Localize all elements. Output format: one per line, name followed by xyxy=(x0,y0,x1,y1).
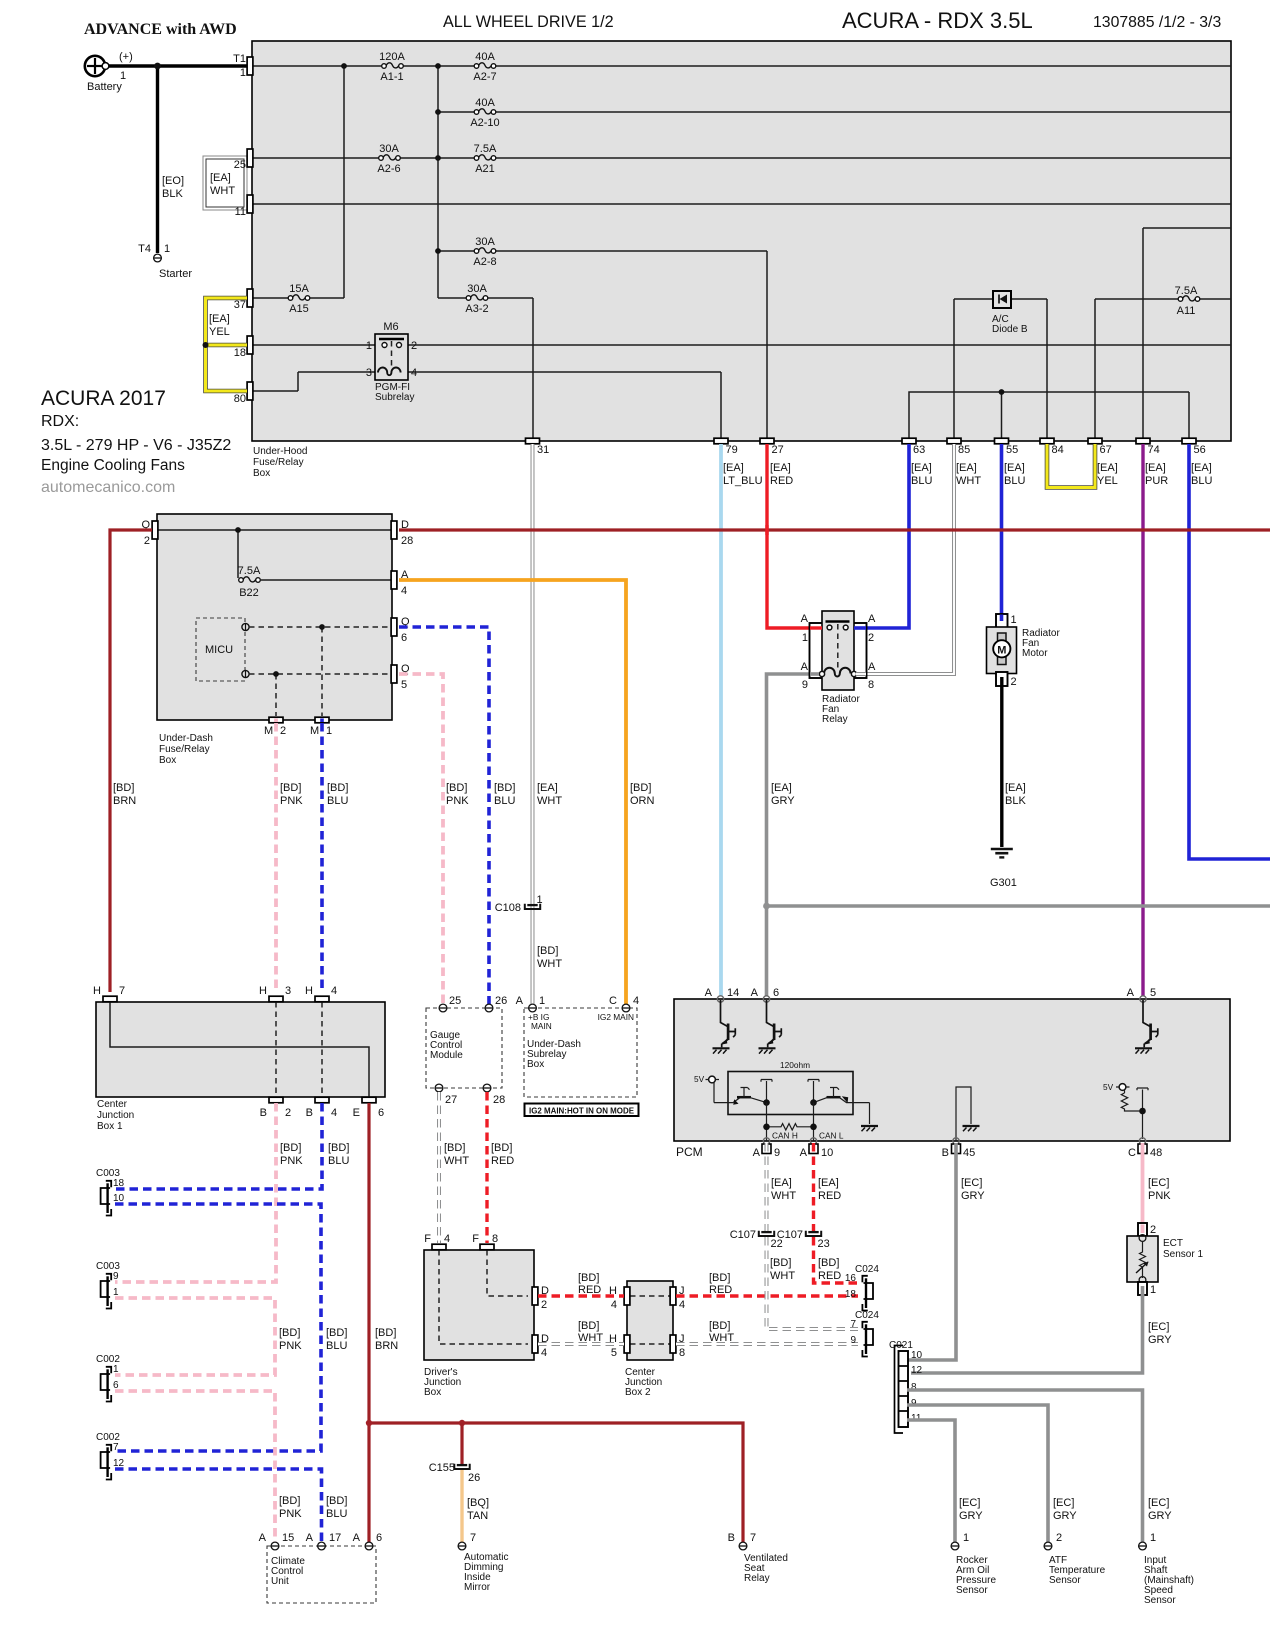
svg-text:3: 3 xyxy=(285,985,291,997)
ECT pin1 connector xyxy=(1138,1282,1147,1295)
svg-text:PNK: PNK xyxy=(280,795,303,807)
pin 27 xyxy=(435,1084,443,1092)
svg-text:[BD]: [BD] xyxy=(327,782,348,794)
svg-text:2: 2 xyxy=(1150,1224,1156,1236)
pin 74 xyxy=(1136,438,1150,444)
wire [EC] GRY ECT pin1 to C021/12 xyxy=(911,1295,1143,1373)
svg-text:BLK: BLK xyxy=(1005,795,1026,807)
pin F/4 xyxy=(432,1244,446,1250)
svg-text:5: 5 xyxy=(401,679,407,691)
svg-text:6: 6 xyxy=(376,1532,382,1544)
svg-text:1: 1 xyxy=(802,632,808,644)
svg-text:[EC]: [EC] xyxy=(959,1497,980,1509)
under-dash fuse/relay box body xyxy=(157,514,392,720)
wire [BD] PNK Q5 to gauge 25 xyxy=(399,674,443,1004)
vertical bus x438 xyxy=(437,66,439,298)
svg-text:BLU: BLU xyxy=(326,1508,347,1520)
svg-text:M: M xyxy=(310,725,319,737)
connector C003 upper xyxy=(101,1181,112,1216)
pin M/1 xyxy=(315,717,329,723)
svg-text:25: 25 xyxy=(234,159,246,171)
svg-text:Motor: Motor xyxy=(1022,648,1048,659)
pin 28 xyxy=(483,1084,491,1092)
motor pin1 connector xyxy=(996,614,1008,628)
wire to fuse B22 xyxy=(238,530,392,580)
svg-text:T4: T4 xyxy=(138,243,151,255)
svg-text:BLU: BLU xyxy=(326,1340,347,1352)
svg-text:[BD]: [BD] xyxy=(537,945,558,957)
pin H/4 xyxy=(315,996,329,1002)
svg-text:2: 2 xyxy=(280,725,286,737)
svg-text:[EA]: [EA] xyxy=(818,1177,839,1189)
svg-text:15A: 15A xyxy=(289,283,309,295)
transistor A6 xyxy=(759,1000,782,1054)
svg-text:BLU: BLU xyxy=(327,795,348,807)
svg-text:1: 1 xyxy=(1150,1284,1156,1296)
svg-text:ACURA 2017: ACURA 2017 xyxy=(41,387,166,410)
svg-text:B: B xyxy=(728,1532,735,1544)
pin 63 xyxy=(902,438,916,444)
svg-text:A: A xyxy=(868,661,876,673)
pin C/4 xyxy=(622,1004,630,1012)
svg-text:C021: C021 xyxy=(889,1340,913,1351)
svg-text:RED: RED xyxy=(491,1155,514,1167)
svg-text:BRN: BRN xyxy=(375,1340,398,1352)
svg-text:7: 7 xyxy=(470,1532,476,1544)
svg-text:[BD]: [BD] xyxy=(578,1320,599,1332)
motor pin2 connector xyxy=(996,672,1008,686)
svg-text:RED: RED xyxy=(818,1190,841,1202)
svg-text:F: F xyxy=(472,1233,479,1245)
svg-text:A: A xyxy=(705,987,713,999)
ECT pullup circuit xyxy=(1103,1082,1148,1139)
svg-text:3: 3 xyxy=(366,367,372,379)
svg-text:A15: A15 xyxy=(289,303,309,315)
svg-text:1: 1 xyxy=(240,67,246,79)
wire row pin11 y204 xyxy=(252,203,1231,205)
svg-text:18: 18 xyxy=(113,1178,125,1189)
pin A/6 xyxy=(365,1542,373,1550)
connector C107 left xyxy=(759,1231,774,1236)
svg-text:[EA]: [EA] xyxy=(537,782,558,794)
svg-text:28: 28 xyxy=(493,1094,505,1106)
pin 26 xyxy=(485,1004,493,1012)
svg-text:[BD]: [BD] xyxy=(818,1257,839,1269)
svg-text:[BD]: [BD] xyxy=(578,1272,599,1284)
svg-text:B: B xyxy=(306,1107,313,1119)
MICU box xyxy=(196,618,245,681)
svg-text:T1: T1 xyxy=(233,53,246,65)
pin A/14 xyxy=(717,996,723,1002)
pin A/5 xyxy=(1140,996,1146,1002)
svg-text:Box: Box xyxy=(424,1387,441,1398)
svg-text:15: 15 xyxy=(282,1532,294,1544)
svg-text:1: 1 xyxy=(326,725,332,737)
svg-text:Mirror: Mirror xyxy=(464,1582,491,1593)
svg-text:BLU: BLU xyxy=(1004,475,1025,487)
svg-text:16: 16 xyxy=(845,1273,857,1284)
fuse 7.5A B22 xyxy=(239,577,261,582)
yellow jumper pin84 to pin67 xyxy=(1047,444,1095,488)
wire [EC] GRY C021/8 to input shaft sensor xyxy=(907,1390,1143,1542)
connector C155 xyxy=(454,1464,469,1469)
svg-text:PNK: PNK xyxy=(279,1340,302,1352)
svg-text:[EA]: [EA] xyxy=(956,462,977,474)
svg-text:B: B xyxy=(942,1147,949,1159)
svg-text:Center: Center xyxy=(97,1099,128,1110)
svg-text:7.5A: 7.5A xyxy=(1175,285,1198,297)
svg-text:[BD]: [BD] xyxy=(326,1495,347,1507)
svg-text:4: 4 xyxy=(633,995,639,1007)
svg-text:C107: C107 xyxy=(730,1229,756,1241)
fuse 40A A2-10 xyxy=(474,109,496,114)
svg-text:A: A xyxy=(306,1532,314,1544)
svg-text:2: 2 xyxy=(411,340,417,352)
wire [BD] WHT gauge 27 to DJB F4 xyxy=(437,1092,441,1243)
svg-text:7: 7 xyxy=(850,1319,856,1330)
motor M circle xyxy=(993,640,1010,657)
svg-text:A: A xyxy=(751,987,759,999)
svg-text:PCM: PCM xyxy=(676,1145,703,1159)
wire maroon branch to C155 xyxy=(460,1423,463,1464)
svg-text:[EC]: [EC] xyxy=(1148,1321,1169,1333)
svg-text:2: 2 xyxy=(1011,676,1017,688)
svg-text:BLU: BLU xyxy=(328,1155,349,1167)
svg-text:14: 14 xyxy=(727,987,739,999)
pin M/2 xyxy=(269,717,283,723)
coil xyxy=(824,668,851,677)
svg-text:84: 84 xyxy=(1052,444,1064,456)
dashed wire H4 to J4 xyxy=(630,1295,670,1297)
pin A/15 xyxy=(271,1542,279,1550)
svg-text:Sensor: Sensor xyxy=(1049,1575,1081,1586)
wire M6 pin4 to pin79 xyxy=(403,372,721,438)
svg-text:9: 9 xyxy=(113,1271,119,1282)
svg-text:YEL: YEL xyxy=(1097,475,1118,487)
wire H7 to E6 internal xyxy=(110,1002,369,1097)
svg-text:[EC]: [EC] xyxy=(1148,1497,1169,1509)
pin A/1 xyxy=(529,1004,537,1012)
PCM body xyxy=(674,999,1230,1141)
svg-text:[BD]: [BD] xyxy=(494,782,515,794)
svg-text:H: H xyxy=(259,985,267,997)
svg-text:Box: Box xyxy=(159,755,176,766)
svg-text:[EA]: [EA] xyxy=(1145,462,1166,474)
svg-text:8: 8 xyxy=(679,1347,685,1359)
connector C107 right xyxy=(806,1231,821,1236)
svg-text:18: 18 xyxy=(234,347,246,359)
svg-text:7.5A: 7.5A xyxy=(238,565,261,577)
wire stubs into motor pins xyxy=(1000,615,1004,622)
svg-text:[BD]: [BD] xyxy=(279,1327,300,1339)
wire row pin37 y298 xyxy=(252,66,533,438)
svg-text:TAN: TAN xyxy=(467,1510,488,1522)
wire [EA] BLU pin56 right exit xyxy=(1189,444,1270,859)
svg-text:31: 31 xyxy=(537,444,549,456)
svg-text:[BD]: [BD] xyxy=(446,782,467,794)
pin A/10 xyxy=(810,1138,816,1144)
wire [BD] PNK B2 to C003/9 xyxy=(115,1103,276,1282)
wire [BD] BLU M1 to CJB1 H4 xyxy=(320,719,324,723)
svg-text:WHT: WHT xyxy=(444,1155,469,1167)
svg-text:4: 4 xyxy=(444,1233,450,1245)
pin 31 xyxy=(526,438,540,444)
svg-text:[BD]: [BD] xyxy=(444,1142,465,1154)
svg-text:30A: 30A xyxy=(475,236,495,248)
ventilated seat relay pin B/7 xyxy=(739,1542,747,1550)
svg-text:Sensor: Sensor xyxy=(956,1585,988,1596)
svg-text:63: 63 xyxy=(913,444,925,456)
svg-text:WHT: WHT xyxy=(956,475,981,487)
svg-text:(+): (+) xyxy=(119,51,133,63)
svg-text:[EA]: [EA] xyxy=(1191,462,1212,474)
svg-text:PNK: PNK xyxy=(280,1155,303,1167)
svg-text:BLU: BLU xyxy=(494,795,515,807)
wire [BD] BLU C002/12 to climate A17 xyxy=(115,1469,322,1542)
svg-text:automecanico.com: automecanico.com xyxy=(41,479,175,496)
pin A/6 xyxy=(763,996,769,1002)
svg-text:A: A xyxy=(516,995,524,1007)
svg-text:M6: M6 xyxy=(383,321,398,333)
svg-text:1: 1 xyxy=(1150,1532,1156,1544)
wire stubs into ECT pins xyxy=(1141,1225,1145,1234)
svg-text:9: 9 xyxy=(774,1147,780,1159)
svg-text:[EA]: [EA] xyxy=(1004,462,1025,474)
svg-text:[BD]: [BD] xyxy=(280,1142,301,1154)
svg-text:GRY: GRY xyxy=(771,795,795,807)
starter terminal T4/1 xyxy=(154,254,162,262)
svg-text:[BD]: [BD] xyxy=(375,1327,396,1339)
svg-text:4: 4 xyxy=(679,1299,685,1311)
svg-text:7: 7 xyxy=(750,1532,756,1544)
svg-text:Sensor 1: Sensor 1 xyxy=(1163,1249,1203,1260)
wire [EA] LT_BLU pin79 to PCM A14 xyxy=(719,444,723,996)
CAN transceiver block 120ohm xyxy=(694,1060,878,1141)
wire [EC] GRY B45 to C021/10 xyxy=(908,1143,956,1360)
dashed wire H4 to B4 xyxy=(321,1002,323,1097)
connector C002 lower xyxy=(101,1445,112,1480)
svg-text:1: 1 xyxy=(539,995,545,1007)
wire [BD] BLU B4 to C003/18 xyxy=(115,1103,322,1189)
svg-text:A: A xyxy=(800,1147,808,1159)
svg-text:B: B xyxy=(260,1107,267,1119)
svg-text:55: 55 xyxy=(1006,444,1018,456)
svg-text:[EA]: [EA] xyxy=(911,462,932,474)
transistor A5 xyxy=(1135,1000,1158,1054)
ground CAN right xyxy=(861,1126,878,1131)
svg-text:8: 8 xyxy=(492,1233,498,1245)
svg-text:1: 1 xyxy=(366,340,372,352)
svg-text:Battery: Battery xyxy=(87,81,122,93)
svg-text:A: A xyxy=(801,661,809,673)
svg-text:10: 10 xyxy=(821,1147,833,1159)
svg-text:RED: RED xyxy=(818,1270,841,1282)
svg-text:A: A xyxy=(259,1532,267,1544)
svg-text:40A: 40A xyxy=(475,51,495,63)
fuse 40A A2-7 xyxy=(474,63,496,68)
dashed link xyxy=(837,624,839,668)
svg-text:120A: 120A xyxy=(379,51,405,63)
pin B/4 xyxy=(315,1097,329,1103)
svg-text:80: 80 xyxy=(234,393,246,405)
svg-text:26: 26 xyxy=(468,1472,480,1484)
svg-text:BLU: BLU xyxy=(1191,475,1212,487)
note box IG2 MAIN:HOT IN ON MODE xyxy=(525,1104,639,1117)
svg-text:PNK: PNK xyxy=(279,1508,302,1520)
ECT pin2 connector xyxy=(1138,1223,1147,1236)
relay side flange left xyxy=(810,623,823,678)
svg-text:5V: 5V xyxy=(694,1074,705,1084)
svg-text:9: 9 xyxy=(850,1335,856,1346)
wire row A2-8 y251 xyxy=(438,251,767,438)
CAN H node riser xyxy=(761,1080,772,1103)
wire [BD] RED C107/23 to C024/16 xyxy=(814,1237,859,1283)
svg-text:11: 11 xyxy=(235,206,246,218)
svg-text:Under-Hood: Under-Hood xyxy=(253,446,307,457)
svg-text:C: C xyxy=(1128,1147,1136,1159)
CAN H / CAN L columns xyxy=(767,1103,814,1141)
svg-text:[EC]: [EC] xyxy=(1053,1497,1074,1509)
svg-text:A: A xyxy=(353,1532,361,1544)
wire maroon D28 right exit xyxy=(399,528,1270,531)
svg-text:[EC]: [EC] xyxy=(961,1177,982,1189)
svg-text:RDX:: RDX: xyxy=(41,413,79,430)
svg-text:M: M xyxy=(264,725,273,737)
svg-text:C108: C108 xyxy=(495,902,521,914)
pin A/17 xyxy=(318,1542,326,1550)
svg-text:WHT: WHT xyxy=(771,1190,796,1202)
wire [BD] WHT C107/22 to C024/7 xyxy=(767,1237,859,1329)
wire pin74 riser xyxy=(1143,228,1231,438)
pin H/4 xyxy=(624,1287,630,1305)
fuse 30A A3-2 xyxy=(466,295,488,300)
svg-text:85: 85 xyxy=(958,444,970,456)
svg-text:IG2 MAIN: IG2 MAIN xyxy=(598,1012,634,1022)
svg-text:ALL WHEEL DRIVE 1/2: ALL WHEEL DRIVE 1/2 xyxy=(443,13,614,31)
wire [BD] BLU C003/10 to C002/7 xyxy=(115,1204,321,1451)
svg-text:H: H xyxy=(93,985,101,997)
svg-text:Junction: Junction xyxy=(97,1110,134,1121)
svg-text:Unit: Unit xyxy=(271,1576,289,1587)
svg-text:C: C xyxy=(609,995,617,1007)
transistor A14 xyxy=(713,1000,736,1054)
svg-text:5V: 5V xyxy=(1103,1082,1114,1092)
wire [BD] BRN maroon from Q2 down to CJB1 H7 xyxy=(110,530,152,992)
svg-text:4: 4 xyxy=(331,985,337,997)
rocker arm oil pressure sensor pin 1 xyxy=(951,1542,959,1550)
wire battery to T1 xyxy=(105,64,247,67)
svg-text:79: 79 xyxy=(726,444,738,456)
pin Q/5 xyxy=(391,665,397,683)
svg-text:1: 1 xyxy=(113,1364,119,1375)
svg-text:Relay: Relay xyxy=(822,714,848,725)
connector C108 xyxy=(525,904,540,909)
svg-text:PUR: PUR xyxy=(1145,475,1168,487)
svg-text:RED: RED xyxy=(578,1284,601,1296)
svg-text:Box: Box xyxy=(527,1059,544,1070)
wire [EC] GRY C021/9 to ATF sensor xyxy=(907,1405,1048,1542)
svg-text:23: 23 xyxy=(818,1238,830,1250)
svg-text:2: 2 xyxy=(541,1299,547,1311)
pin 25 xyxy=(247,149,253,167)
wire [EA] WHT A9 to C107/22 xyxy=(765,1143,769,1231)
svg-text:5: 5 xyxy=(1150,987,1156,999)
wire [BD] BLU Q6 to gauge 26 xyxy=(399,627,489,1004)
svg-text:1: 1 xyxy=(963,1532,969,1544)
svg-text:WHT: WHT xyxy=(578,1332,603,1344)
svg-text:ADVANCE with AWD: ADVANCE with AWD xyxy=(84,21,237,38)
svg-text:A: A xyxy=(868,613,876,625)
dashed wire F4 to D4 xyxy=(439,1250,528,1344)
B45 internal ground loop xyxy=(956,1087,971,1141)
svg-text:A2-10: A2-10 xyxy=(470,117,499,129)
svg-text:27: 27 xyxy=(772,444,784,456)
CAN driver transistor left xyxy=(733,1098,740,1103)
svg-text:25: 25 xyxy=(449,995,461,1007)
svg-text:120ohm: 120ohm xyxy=(780,1060,810,1070)
pin D/28 xyxy=(391,521,397,539)
yellow wire loop pins 37-18-80 xyxy=(203,298,248,391)
connector C024 upper xyxy=(862,1276,873,1311)
fuse 30A A2-8 xyxy=(474,248,496,253)
battery symbol xyxy=(85,56,105,76)
svg-text:7.5A: 7.5A xyxy=(474,143,497,155)
pin Q/6 xyxy=(391,618,397,636)
svg-text:WHT: WHT xyxy=(537,795,562,807)
svg-text:10: 10 xyxy=(113,1193,125,1204)
svg-text:9: 9 xyxy=(802,679,808,691)
svg-text:PNK: PNK xyxy=(446,795,469,807)
svg-text:BRN: BRN xyxy=(113,795,136,807)
svg-text:37: 37 xyxy=(234,299,246,311)
wire A11 to pin67 xyxy=(1095,299,1231,438)
wire [EC] GRY C021/11 to rocker arm sensor xyxy=(907,1420,955,1542)
pin C/48 xyxy=(1139,1138,1145,1144)
wire [BD] ORN A4 to subrelay C4 xyxy=(399,580,626,1004)
pin F/8 xyxy=(480,1244,494,1250)
svg-text:3.5L - 279 HP - V6 - J35Z2: 3.5L - 279 HP - V6 - J35Z2 xyxy=(41,437,231,454)
svg-text:[BD]: [BD] xyxy=(630,782,651,794)
svg-text:1307885 /1/2 - 3/3: 1307885 /1/2 - 3/3 xyxy=(1093,14,1221,31)
wire row A2-10 y112 xyxy=(438,111,1231,113)
svg-text:4: 4 xyxy=(331,1107,337,1119)
pin 37 xyxy=(247,289,253,307)
wire [BQ] TAN C155 to mirror xyxy=(460,1470,463,1542)
wire [EA] BLU pin55 to fan motor pin1 xyxy=(1000,444,1004,616)
pin 25 xyxy=(439,1004,447,1012)
svg-text:WHT: WHT xyxy=(770,1270,795,1282)
svg-text:Subrelay: Subrelay xyxy=(375,392,414,403)
svg-text:GRY: GRY xyxy=(1148,1510,1172,1522)
svg-text:30A: 30A xyxy=(379,143,399,155)
svg-text:WHT: WHT xyxy=(709,1332,734,1344)
pin D/4 xyxy=(532,1335,538,1353)
wire battery to starter xyxy=(156,66,159,253)
ECT body xyxy=(1127,1236,1158,1282)
svg-text:MICU: MICU xyxy=(205,644,233,656)
svg-text:Relay: Relay xyxy=(744,1573,770,1584)
pin B/45 xyxy=(953,1138,959,1144)
svg-text:2: 2 xyxy=(1056,1532,1062,1544)
svg-text:5: 5 xyxy=(611,1347,617,1359)
svg-text:[EA]: [EA] xyxy=(210,172,231,184)
junction dots under-hood xyxy=(341,63,347,69)
relay M6 PGM-FI subrelay xyxy=(366,321,417,403)
wire stubs into relay flanges xyxy=(810,626,822,629)
svg-text:12: 12 xyxy=(113,1458,125,1469)
svg-text:[EA]: [EA] xyxy=(771,782,792,794)
fuse 7.5A A11 xyxy=(1178,296,1200,301)
